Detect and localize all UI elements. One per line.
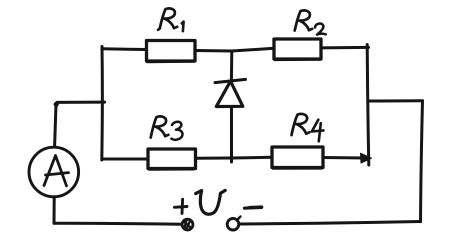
wire top rail right segment [321,46,369,50]
wire top rail middle segment [195,48,274,51]
wire ammeter bottom lead [53,197,56,224]
label U [196,190,226,214]
wire bottom bridge rail middle segment [196,157,273,158]
label R4 [292,114,324,141]
resistor R4 [272,147,323,168]
diode triangle [216,81,243,106]
label + [175,199,188,213]
label R2 [295,10,326,34]
wire diode branch upper [230,51,233,81]
label R1 [158,8,184,31]
source terminal + (left) [182,219,193,230]
label minus [245,207,262,208]
junction blob [54,102,59,107]
wire right bridge rail vertical [367,45,369,166]
wire outer right rail vertical [421,101,423,222]
wire ammeter top lead horizontal [57,101,105,104]
wire left bridge rail vertical [100,47,104,161]
wire top rail left segment [102,47,147,51]
wire ammeter top lead vertical [55,104,56,147]
ammeter A1 circle [29,147,79,197]
label A [44,156,69,186]
wire jog to outer right rail [369,99,423,102]
source terminal - (right) [227,218,239,230]
resistor R3 [148,149,196,169]
diode cathode bar [215,79,246,82]
wire bottom bridge rail right segment with current arrow [323,156,365,160]
label R3 [151,116,183,139]
resistor R1 [147,41,196,62]
wire bottom left segment [54,223,182,224]
wire bottom right segment [239,222,421,225]
wire diode branch lower [230,107,233,162]
wire bottom bridge rail left segment [102,158,148,161]
arrowhead [361,153,372,163]
resistor R2 [274,39,321,59]
